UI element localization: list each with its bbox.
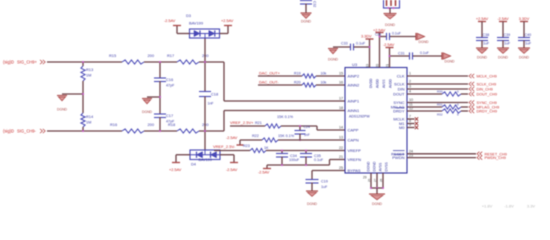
svg-text:1: 1 xyxy=(409,72,411,76)
svg-text:10k: 10k xyxy=(321,71,327,75)
svg-text:25: 25 xyxy=(339,166,343,170)
svg-text:BYPAS: BYPAS xyxy=(348,168,361,173)
svg-text:DGND: DGND xyxy=(367,161,371,172)
svg-text:SIG_CH9+: SIG_CH9+ xyxy=(17,60,38,65)
svg-text:10k: 10k xyxy=(321,81,327,85)
svg-text:1K: 1K xyxy=(264,146,269,150)
svg-text:C18: C18 xyxy=(211,92,218,97)
svg-text:PWDN: PWDN xyxy=(392,155,404,160)
svg-text:C33: C33 xyxy=(341,42,348,46)
svg-text:47pF: 47pF xyxy=(166,120,175,124)
svg-text:DGND: DGND xyxy=(307,202,318,206)
svg-text:DGND: DGND xyxy=(372,202,383,206)
svg-text:MCLK_CH9: MCLK_CH9 xyxy=(477,75,497,79)
svg-text:+2.5AV: +2.5AV xyxy=(169,168,182,172)
svg-text:200: 200 xyxy=(148,53,155,58)
svg-text:D4: D4 xyxy=(191,161,197,166)
svg-text:AINN2: AINN2 xyxy=(348,83,361,88)
svg-text:BAV199: BAV199 xyxy=(199,158,212,162)
svg-text:R15: R15 xyxy=(109,53,116,58)
svg-text:0.1uF: 0.1uF xyxy=(356,42,366,46)
svg-text:AVDD: AVDD xyxy=(376,78,380,88)
svg-text:-2.5AV: -2.5AV xyxy=(258,171,270,175)
svg-text:DVDD: DVDD xyxy=(369,78,373,88)
svg-text:1uF: 1uF xyxy=(525,41,532,45)
svg-text:3.3V: 3.3V xyxy=(527,204,536,209)
svg-text:-2.5AV: -2.5AV xyxy=(383,43,395,47)
svg-text:DGND: DGND xyxy=(142,110,153,114)
svg-text:SCLK_CH9: SCLK_CH9 xyxy=(477,83,497,87)
svg-text:DOUT: DOUT xyxy=(393,92,405,97)
svg-text:R19: R19 xyxy=(294,71,301,75)
svg-text:1M: 1M xyxy=(86,120,91,125)
svg-text:C17: C17 xyxy=(166,113,173,118)
svg-text:DGND: DGND xyxy=(385,23,396,27)
svg-text:(sig)D: (sig)D xyxy=(3,129,14,134)
svg-text:D3: D3 xyxy=(186,13,191,18)
svg-text:1uF: 1uF xyxy=(504,41,511,45)
svg-text:DVSS: DVSS xyxy=(385,162,389,172)
svg-text:200: 200 xyxy=(148,122,155,127)
svg-text:16: 16 xyxy=(339,81,343,85)
svg-text:C39: C39 xyxy=(504,33,511,37)
svg-text:0.1uF: 0.1uF xyxy=(420,51,429,55)
svg-text:-2.5AV: -2.5AV xyxy=(226,168,238,172)
svg-text:0.1uF: 0.1uF xyxy=(314,158,324,162)
svg-text:14: 14 xyxy=(339,126,343,130)
svg-text:DGND: DGND xyxy=(301,20,312,24)
svg-text:2: 2 xyxy=(409,80,411,84)
svg-text:AINP2: AINP2 xyxy=(348,74,360,79)
svg-text:7: 7 xyxy=(409,115,411,119)
svg-text:-2.5AV: -2.5AV xyxy=(226,136,238,140)
svg-text:+2.5AV: +2.5AV xyxy=(476,17,489,21)
svg-text:VREF_2.5V+: VREF_2.5V+ xyxy=(230,120,254,125)
svg-text:13: 13 xyxy=(339,136,343,140)
svg-text:SYNC_CH9: SYNC_CH9 xyxy=(477,101,497,105)
svg-text:DIN_CH9: DIN_CH9 xyxy=(477,88,493,92)
svg-text:DOUT_CH9: DOUT_CH9 xyxy=(477,93,497,97)
svg-text:20: 20 xyxy=(375,64,379,68)
svg-text:1nF: 1nF xyxy=(208,102,214,106)
svg-text:-1.8V: -1.8V xyxy=(504,204,514,209)
svg-text:R20: R20 xyxy=(294,81,301,85)
svg-text:100uF: 100uF xyxy=(289,158,300,162)
svg-text:C19: C19 xyxy=(321,180,328,184)
svg-text:-2.5AV: -2.5AV xyxy=(164,19,176,23)
svg-text:DRDY: DRDY xyxy=(393,109,405,114)
svg-text:R21: R21 xyxy=(255,121,262,125)
svg-text:47pF: 47pF xyxy=(166,84,175,88)
svg-text:BAV199: BAV199 xyxy=(189,21,203,26)
svg-text:C32: C32 xyxy=(313,1,317,7)
svg-text:22: 22 xyxy=(339,146,343,150)
svg-text:C16: C16 xyxy=(166,77,173,82)
svg-text:VREF_2.5V-: VREF_2.5V- xyxy=(213,144,236,149)
svg-text:DGND: DGND xyxy=(328,58,339,62)
svg-text:1uF: 1uF xyxy=(321,185,328,189)
svg-text:21: 21 xyxy=(385,64,389,68)
svg-text:PWDN_CH9: PWDN_CH9 xyxy=(485,156,506,160)
svg-text:DGND: DGND xyxy=(477,56,488,60)
svg-text:C31: C31 xyxy=(398,52,405,56)
svg-text:DAC_OUT-: DAC_OUT- xyxy=(259,80,279,85)
svg-text:R31: R31 xyxy=(437,103,443,107)
svg-text:ADS1292PW: ADS1292PW xyxy=(349,115,370,119)
svg-text:R13: R13 xyxy=(86,67,93,72)
svg-text:27: 27 xyxy=(373,178,377,182)
svg-text:VREFP: VREFP xyxy=(348,148,362,153)
svg-text:26: 26 xyxy=(367,178,371,182)
svg-text:DRDY_CH9: DRDY_CH9 xyxy=(477,110,497,114)
svg-text:C24: C24 xyxy=(304,125,310,129)
svg-text:(sig)D: (sig)D xyxy=(3,60,14,65)
svg-text:15: 15 xyxy=(339,72,343,76)
svg-text:1uF: 1uF xyxy=(483,41,490,45)
svg-text:17: 17 xyxy=(339,97,343,101)
svg-text:200: 200 xyxy=(202,53,209,58)
svg-text:R17: R17 xyxy=(167,53,174,58)
svg-text:3: 3 xyxy=(409,85,411,89)
svg-text:CAPN: CAPN xyxy=(348,138,359,143)
svg-text:CLK: CLK xyxy=(397,74,405,79)
svg-text:R14: R14 xyxy=(86,114,94,119)
svg-text:3.3DV: 3.3DV xyxy=(361,35,372,39)
svg-text:28: 28 xyxy=(379,178,383,182)
svg-text:DGND: DGND xyxy=(519,56,530,60)
svg-text:C38: C38 xyxy=(483,33,490,37)
svg-text:AVSS: AVSS xyxy=(382,79,386,88)
svg-text:19: 19 xyxy=(365,64,369,68)
svg-text:AINP1: AINP1 xyxy=(348,99,360,104)
svg-text:0.1uF: 0.1uF xyxy=(392,32,401,36)
svg-text:1M: 1M xyxy=(86,73,91,78)
svg-text:DAC_OUT+: DAC_OUT+ xyxy=(259,70,281,75)
svg-text:AVDD: AVDD xyxy=(389,78,393,88)
svg-text:M0: M0 xyxy=(399,125,405,130)
svg-text:AVSS: AVSS xyxy=(379,162,383,172)
svg-text:R23: R23 xyxy=(243,144,250,148)
svg-text:DGND: DGND xyxy=(498,56,509,60)
svg-text:DGND: DGND xyxy=(57,108,68,112)
svg-text:R16: R16 xyxy=(110,122,117,127)
svg-text:DGND: DGND xyxy=(445,59,456,63)
svg-text:+2.5AV: +2.5AV xyxy=(221,19,234,23)
svg-text:R22: R22 xyxy=(252,134,259,138)
svg-text:15K 0.1%: 15K 0.1% xyxy=(277,115,294,119)
svg-text:AINN1: AINN1 xyxy=(348,108,361,113)
svg-text:C20: C20 xyxy=(375,32,381,36)
svg-text:1nF: 1nF xyxy=(304,133,310,137)
svg-text:VREFN: VREFN xyxy=(348,157,362,162)
svg-text:CAPP: CAPP xyxy=(348,128,359,133)
svg-text:-2.5AV: -2.5AV xyxy=(497,17,509,21)
svg-text:+1.8V: +1.8V xyxy=(482,204,493,209)
svg-text:R32: R32 xyxy=(437,112,443,116)
svg-text:15K 0.1%: 15K 0.1% xyxy=(278,134,295,138)
svg-text:DGND: DGND xyxy=(373,161,377,172)
svg-text:DGND: DGND xyxy=(419,40,430,44)
svg-text:200: 200 xyxy=(202,122,209,127)
svg-text:4: 4 xyxy=(409,90,411,94)
svg-text:SIG_CH9-: SIG_CH9- xyxy=(17,129,37,134)
svg-text:21: 21 xyxy=(339,155,343,159)
svg-text:18: 18 xyxy=(339,106,343,110)
svg-text:C40: C40 xyxy=(525,33,532,37)
svg-text:3.3DV: 3.3DV xyxy=(519,17,530,21)
svg-text:U3: U3 xyxy=(352,62,358,67)
svg-text:10: 10 xyxy=(409,98,413,102)
svg-text:R30: R30 xyxy=(437,90,443,94)
